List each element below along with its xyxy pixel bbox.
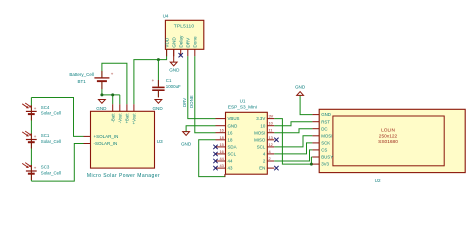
ground symbol under C1 [152, 100, 163, 112]
wire ground to U2 GND [300, 96, 312, 115]
no-connect X on U1 EN [274, 166, 278, 170]
wire ground rail to U3 -Batt pins [102, 95, 120, 104]
svg-text:GND: GND [228, 123, 238, 128]
svg-text:+: + [152, 78, 155, 83]
wire C1 bottom [157, 91, 159, 97]
solar cell SC3 [22, 163, 61, 180]
svg-text:18: 18 [219, 135, 223, 140]
svg-text:GND: GND [169, 68, 180, 73]
svg-text:BUSY: BUSY [321, 155, 333, 160]
wire 3V3 net (U1 3.3V to U2 3V3) [274, 119, 312, 165]
svg-text:+Batt: +Batt [125, 113, 130, 124]
svg-text:GND: GND [152, 106, 163, 111]
svg-text:+: + [34, 134, 37, 139]
svg-text:2: 2 [269, 156, 271, 161]
solar cell SC4 [22, 103, 61, 120]
wire GPIO2 to U2 CS [274, 150, 312, 161]
wire GPIO4 to U2 SCK [274, 143, 312, 154]
svg-text:EN: EN [259, 166, 265, 171]
svg-text:10: 10 [260, 123, 265, 128]
wire DONE net (U4 Done to U1 pin16) [195, 56, 216, 132]
svg-text:MISO: MISO [254, 137, 266, 142]
junction 3V3/BUSY [310, 163, 313, 166]
no-connect X on U4 Delay pin [179, 53, 183, 57]
svg-text:VDD: VDD [164, 37, 169, 48]
wire solar series chain [30, 98, 32, 182]
svg-text:GND: GND [295, 84, 306, 89]
wire solar bottom to -SOLAR_IN [31, 144, 83, 182]
wire U4 GND pin to ground [173, 49, 175, 62]
svg-text:MOSI: MOSI [321, 133, 332, 138]
svg-text:+Vout: +Vout [132, 113, 137, 125]
wire U1 GND to ground [186, 126, 215, 132]
svg-text:DC: DC [321, 126, 327, 131]
svg-text:3V: 3V [269, 114, 274, 119]
ground symbol for U1 GND [181, 132, 192, 147]
svg-text:CS: CS [321, 148, 327, 153]
svg-text:16: 16 [219, 149, 223, 154]
svg-text:4: 4 [269, 149, 272, 154]
svg-text:GND: GND [172, 37, 177, 48]
no-connect X on U1 SDA [213, 145, 217, 149]
wire solar top to +SOLAR_IN [31, 98, 83, 137]
svg-text:Solar_Cell: Solar_Cell [41, 111, 61, 116]
junction -Batt pin A [111, 93, 114, 96]
op-amp U1 ESP_S3_Mini (module) [216, 99, 275, 177]
svg-text:+: + [34, 106, 37, 111]
svg-text:MOSI: MOSI [254, 130, 265, 135]
svg-text:3V3: 3V3 [321, 162, 329, 167]
wire DRV net (U4 DRV to U1 VBUS) [188, 56, 216, 118]
svg-text:Solar_Cell: Solar_Cell [41, 139, 61, 144]
svg-text:BT1: BT1 [77, 79, 86, 84]
svg-text:16: 16 [228, 130, 233, 135]
svg-text:18: 18 [228, 137, 233, 142]
svg-text:LOLIN: LOLIN [381, 127, 395, 133]
svg-text:GND: GND [96, 106, 107, 111]
svg-text:10: 10 [269, 121, 274, 126]
svg-text:Micro Solar Power Manager: Micro Solar Power Manager [87, 173, 160, 179]
svg-text:SC4: SC4 [41, 105, 50, 110]
wire GPIO10 to U2 RST [274, 122, 312, 126]
no-connect X on U1 MISO [274, 138, 278, 142]
svg-text:SCL: SCL [228, 152, 237, 157]
svg-text:U4: U4 [163, 14, 169, 19]
svg-text:DRV: DRV [182, 98, 187, 107]
svg-text:SC3: SC3 [41, 165, 50, 170]
svg-text:U3: U3 [157, 139, 163, 145]
svg-text:44: 44 [228, 159, 233, 164]
svg-text:16: 16 [219, 128, 223, 133]
solar cell SC1 [22, 131, 61, 148]
svg-text:TPL5110: TPL5110 [174, 24, 195, 30]
svg-text:ESP_S3_Mini: ESP_S3_Mini [228, 104, 257, 109]
svg-text:SCK: SCK [321, 141, 330, 146]
svg-text:SS01680: SS01680 [378, 139, 398, 145]
no-connect X on U1 SCL [213, 152, 217, 156]
svg-text:-Batt: -Batt [110, 113, 115, 123]
ground symbol (inverted) above U2 GND [295, 84, 306, 95]
svg-text:DONE: DONE [189, 95, 194, 108]
wire +Vout rail (U3 to C1 to U4 VDD) [134, 49, 167, 104]
battery BT1 [69, 71, 113, 89]
no-connect X on U1 pin44 [213, 159, 217, 163]
op-amp U2 LOLIN e-paper display [312, 109, 465, 183]
net label DRV [182, 98, 187, 107]
svg-text:+SOLAR_IN: +SOLAR_IN [94, 134, 119, 139]
svg-text:SC1: SC1 [41, 133, 50, 138]
svg-text:SDA: SDA [228, 145, 237, 150]
junction C1 / VDD rail [157, 58, 160, 61]
svg-text:1000uF: 1000uF [166, 84, 181, 89]
wire SCL to U2 MOSI [274, 136, 312, 147]
wire battery- to ground rail [101, 82, 103, 95]
wire C1 top [157, 60, 159, 87]
svg-text:DRV: DRV [186, 37, 191, 48]
svg-text:43: 43 [228, 166, 233, 171]
wire MOSI to U2 DC [274, 129, 312, 133]
svg-text:15: 15 [219, 142, 223, 147]
svg-text:250x122: 250x122 [379, 133, 398, 139]
svg-text:11: 11 [269, 128, 273, 133]
svg-text:Delay: Delay [179, 35, 184, 48]
svg-text:Battery_Cell: Battery_Cell [69, 72, 94, 77]
svg-text:SCL: SCL [257, 145, 266, 150]
svg-text:GND: GND [321, 112, 331, 117]
no-connect X on U1 pin43 [213, 166, 217, 170]
svg-text:Done: Done [193, 36, 198, 48]
svg-text:U1: U1 [240, 99, 246, 104]
svg-text:13: 13 [269, 135, 273, 140]
junction battery- / GND [100, 93, 103, 96]
svg-text:VBUS: VBUS [228, 116, 240, 121]
op-amp U4 TPL5110 (timer IC) [163, 14, 204, 57]
svg-text:C1: C1 [166, 78, 172, 83]
ground symbol under BT1 [96, 100, 107, 112]
svg-text:3.3V: 3.3V [256, 116, 265, 121]
svg-text:43: 43 [219, 163, 223, 168]
svg-text:+: + [111, 71, 114, 76]
wire 3V3 branch to U2 BUSY [311, 157, 312, 164]
svg-text:44: 44 [219, 156, 224, 161]
net label DONE [189, 95, 194, 108]
svg-text:Solar_Cell: Solar_Cell [41, 170, 61, 175]
svg-text:12: 12 [269, 142, 273, 147]
wire GPIO18 to U1 bottom pin [199, 140, 225, 177]
svg-text:RST: RST [321, 119, 330, 124]
wire battery+ rail to U3 +Batt [102, 63, 127, 104]
svg-text:U2: U2 [375, 178, 381, 183]
svg-text:-Vout: -Vout [118, 113, 123, 124]
svg-text:GND: GND [181, 142, 192, 147]
svg-text:+: + [34, 165, 37, 170]
op-amp U3 Micro Solar Power Manager [84, 104, 164, 179]
ground symbol under U4 GND pin [169, 62, 180, 72]
capacitor C1 [152, 78, 181, 98]
svg-text:-SOLAR_IN: -SOLAR_IN [94, 141, 118, 146]
